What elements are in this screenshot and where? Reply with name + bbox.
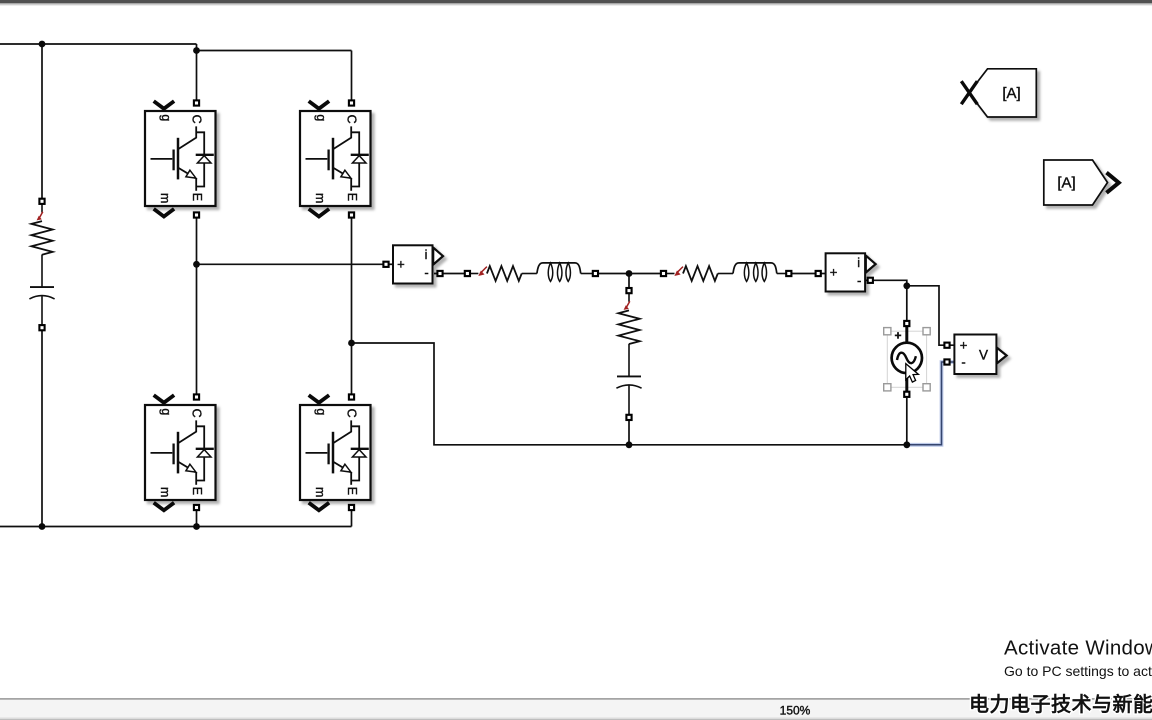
U2 m port arrow <box>309 209 329 217</box>
top window edge bar <box>0 0 1152 6</box>
port shunt bottom <box>626 415 631 420</box>
shunt RC red arrow <box>624 301 630 310</box>
wire current measurement 2 minus to node D <box>865 280 907 322</box>
junction bottom bus mid <box>193 523 200 530</box>
svg-text:150%: 150% <box>780 704 811 718</box>
port shunt top <box>626 288 631 293</box>
wire selected (blue) voltage measurement minus to node E <box>907 362 955 445</box>
wire node D to voltage measurement plus <box>907 286 955 345</box>
junction top bus <box>39 41 46 48</box>
port voltage measurement minus <box>944 359 949 364</box>
From tag output arrow <box>1107 173 1119 193</box>
svg-text:+: + <box>960 338 968 353</box>
junction node E <box>903 441 910 448</box>
series RLC branch 2 <box>664 263 792 282</box>
svg-text:电力电子技术与新能源: 电力电子技术与新能源 <box>969 692 1152 716</box>
junction node B <box>348 340 355 347</box>
U3 m port arrow <box>154 503 174 511</box>
wire left snubber top <box>41 44 43 201</box>
series RLC branch 1 <box>467 263 595 282</box>
Goto tag A <box>969 69 1036 117</box>
U1 m port arrow <box>154 209 174 217</box>
IGBT/Diode block U3 <box>145 405 216 500</box>
U3 gate port arrow <box>154 395 174 403</box>
wire IGBT3 emitter to bottom bus <box>196 508 198 527</box>
wire current measurement 1 plus stub <box>386 263 393 265</box>
wire node B to bottom return <box>352 343 907 445</box>
svg-text:[A]: [A] <box>1057 175 1075 192</box>
series RC snubber branch left <box>29 201 54 327</box>
port snubber top <box>39 199 44 204</box>
svg-text:Activate Windows: Activate Windows <box>1004 637 1152 660</box>
IGBT/Diode block U2 <box>300 111 371 206</box>
wire node C to shunt branch <box>628 274 630 291</box>
junction node D <box>903 282 910 289</box>
wire to IGBT1 collector <box>196 51 198 104</box>
port U2 C <box>349 100 354 105</box>
port U3 C <box>194 394 199 399</box>
U1 gate port arrow <box>154 101 174 109</box>
wire AC source bottom to node E <box>906 398 908 445</box>
wire RLC1 to RLC2 through node C <box>595 273 663 275</box>
junction node C bottom <box>626 441 633 448</box>
port U3 E <box>194 505 199 510</box>
shunt RC load branch <box>616 291 641 417</box>
port AC source plus <box>904 321 909 326</box>
port RLC2 left <box>661 271 666 276</box>
current measurement block 2 <box>826 253 876 291</box>
mouse cursor <box>906 364 919 382</box>
port U1 E <box>194 212 199 217</box>
port RLC2 right <box>786 271 791 276</box>
U4 gate port arrow <box>309 395 329 403</box>
junction node A <box>193 261 200 268</box>
port U1 C <box>194 100 199 105</box>
wire node B to IGBT4 collector <box>351 343 353 397</box>
wire top bus jog <box>197 44 352 51</box>
wire RLC2 to current measurement 2 <box>789 273 818 275</box>
wire IGBT4 emitter to bottom bus <box>351 508 353 527</box>
U2 gate port arrow <box>309 101 329 109</box>
U4 m port arrow <box>309 503 329 511</box>
snubber red arrow <box>37 212 43 221</box>
junction bottom bus left <box>39 523 46 530</box>
wire to IGBT2 collector <box>351 51 353 104</box>
wire left snubber bottom <box>41 328 43 527</box>
AC voltage source selection frame <box>887 331 926 387</box>
From tag A <box>1044 160 1108 205</box>
wire top DC bus <box>0 43 197 45</box>
svg-text:-: - <box>961 354 965 369</box>
selection handle top-right <box>923 328 930 335</box>
wire IGBT2 emitter to node B <box>351 215 353 343</box>
wire current measurement 2 plus stub <box>818 273 825 275</box>
wire IGBT1 emitter to node A <box>196 215 198 264</box>
current measurement block 1 <box>393 245 443 283</box>
voltage measurement block <box>954 335 1006 375</box>
selection handle bottom-right <box>923 384 930 391</box>
svg-text:+: + <box>894 328 901 342</box>
svg-text:[A]: [A] <box>1002 85 1020 102</box>
port U2 E <box>349 212 354 217</box>
Goto tag unconnected X <box>961 81 977 104</box>
port U4 C <box>349 394 354 399</box>
junction top jog <box>193 47 200 54</box>
wire bottom DC bus <box>0 526 352 528</box>
port current measurement 2 plus <box>816 271 821 276</box>
port current measurement 2 minus <box>868 278 873 283</box>
port snubber bottom <box>39 325 44 330</box>
port RLC1 left <box>465 271 470 276</box>
AC voltage source <box>892 327 922 391</box>
port current measurement 1 minus <box>437 271 442 276</box>
port U4 E <box>349 505 354 510</box>
RLC1 red arrow <box>478 267 487 276</box>
IGBT/Diode block U4 <box>300 405 371 500</box>
wire node A to current measurement 1 <box>197 263 387 265</box>
status bar <box>0 698 1152 720</box>
IGBT/Diode block U1 <box>145 111 216 206</box>
wire shunt branch to bottom return <box>628 417 630 444</box>
port voltage measurement plus <box>944 343 949 348</box>
svg-text:Go to PC settings to activate: Go to PC settings to activate <box>1004 663 1152 679</box>
port AC source minus <box>904 392 909 397</box>
port current measurement 1 plus <box>383 262 388 267</box>
junction node C <box>626 270 633 277</box>
selection handle bottom-left <box>884 384 891 391</box>
port RLC1 right <box>593 271 598 276</box>
svg-text:V: V <box>979 347 988 362</box>
wire current measurement 1 minus to RLC1 <box>434 273 467 275</box>
RLC2 red arrow <box>674 267 683 276</box>
wire node A to IGBT3 collector <box>196 264 198 397</box>
selection handle top-left <box>884 328 891 335</box>
